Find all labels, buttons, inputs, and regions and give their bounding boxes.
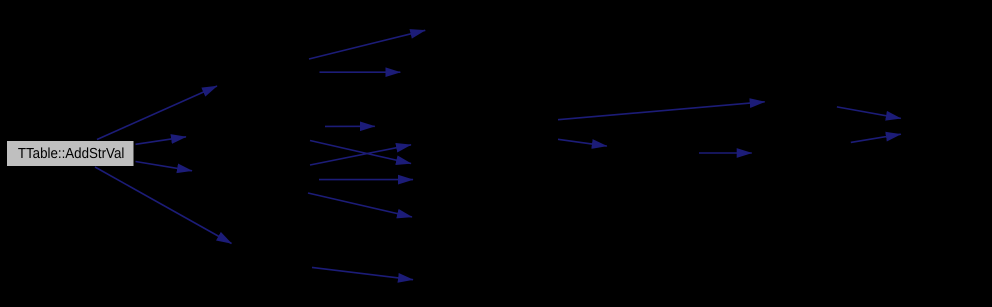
wire edge B3 — [325, 125, 375, 127]
wire edge A1 — [97, 86, 217, 140]
wire edge C3 — [699, 152, 752, 154]
wire edge C2 — [558, 139, 607, 146]
wire edge D1 — [837, 107, 901, 119]
wire edge B7 — [308, 193, 412, 217]
node TTable::AddStrVal — [7, 141, 135, 167]
wire edge D2 — [851, 134, 901, 142]
wire edge B4 — [310, 141, 411, 164]
wire edge B2 — [320, 71, 401, 73]
wire edge B8 — [312, 267, 413, 279]
wire edge C1 — [558, 102, 765, 120]
wire edge B5 — [310, 145, 411, 165]
wire edge A4 — [95, 167, 232, 244]
wire edge A3 — [136, 162, 193, 171]
svg-text:TTable::AddStrVal: TTable::AddStrVal — [18, 146, 125, 162]
wire edge B6 — [319, 179, 413, 181]
wire edge B1 — [309, 30, 425, 59]
wire edge A2 — [136, 137, 187, 145]
